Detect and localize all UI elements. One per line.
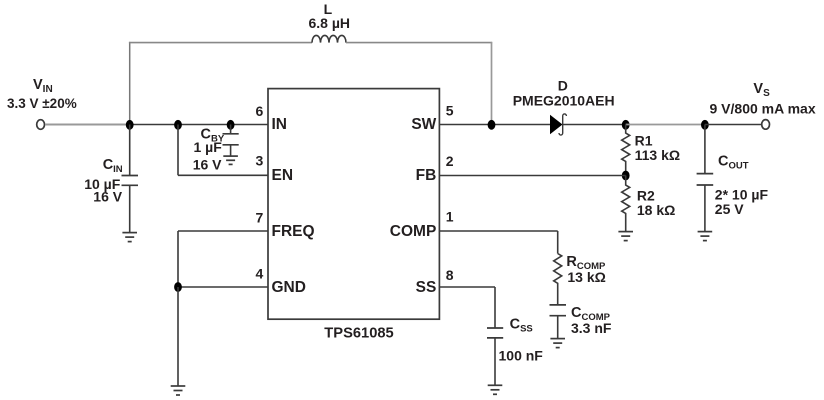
node VS output terminal: [762, 120, 770, 130]
svg-text:GND: GND: [272, 279, 306, 296]
svg-text:FREQ: FREQ: [272, 223, 315, 240]
svg-text:FB: FB: [416, 167, 437, 184]
wire COMP from pin 1: [439, 230, 557, 232]
junction GND node: [174, 282, 182, 292]
svg-text:3: 3: [256, 153, 264, 169]
op-amp U1 TPS61085 IC body: [268, 89, 439, 320]
capacitor CSS plates: [487, 327, 503, 329]
svg-text:1 µF: 1 µF: [194, 139, 223, 155]
svg-text:COMP: COMP: [390, 223, 437, 240]
wire FREQ/GND riser: [177, 231, 179, 287]
capacitor CBY plates: [223, 133, 239, 135]
svg-text:1: 1: [446, 209, 454, 225]
node VIN input terminal: [37, 120, 45, 130]
svg-text:25 V: 25 V: [715, 201, 744, 217]
wire VIN lead: [45, 124, 128, 126]
capacitor COUT lead bottom: [704, 185, 706, 232]
svg-text:PMEG2010AEH: PMEG2010AEH: [513, 93, 615, 109]
ground under R2: [618, 232, 633, 241]
wire SW to diode: [439, 124, 550, 126]
wire GND down to ground: [177, 287, 179, 386]
wire output lead: [705, 124, 761, 126]
svg-text:SW: SW: [411, 116, 436, 133]
resistor R2: [622, 176, 630, 232]
junction R1/R2/FB: [622, 171, 630, 181]
capacitor CIN lead top: [129, 125, 131, 176]
svg-text:CSS: CSS: [510, 317, 533, 335]
wire FB to divider: [439, 175, 625, 177]
svg-text:6: 6: [256, 103, 264, 119]
svg-text:EN: EN: [272, 167, 294, 184]
junction bus/EN riser: [174, 120, 182, 130]
diode D PMEG2010AEH triangle: [550, 115, 563, 134]
junction SW/riser: [488, 120, 496, 130]
resistor R1: [622, 125, 630, 176]
ground under CCOMP: [550, 339, 565, 348]
wire input bus: [128, 124, 268, 126]
svg-text:SS: SS: [416, 279, 437, 296]
svg-text:9 V/800 mA max: 9 V/800 mA max: [710, 100, 816, 116]
svg-text:18 kΩ: 18 kΩ: [637, 202, 675, 218]
junction diode/R1: [622, 120, 630, 130]
wire FREQ from riser to pin 7: [178, 230, 268, 232]
wire SS riser down: [494, 287, 496, 328]
ground main (left): [171, 386, 186, 395]
svg-text:3.3 nF: 3.3 nF: [571, 320, 612, 336]
capacitor COUT plates: [697, 173, 714, 175]
svg-text:4: 4: [256, 266, 264, 282]
wire EN riser: [177, 125, 179, 176]
svg-text:7: 7: [256, 210, 264, 226]
ground under CIN: [122, 233, 137, 242]
svg-text:VIN: VIN: [33, 77, 53, 95]
ground under CBY: [223, 156, 238, 164]
resistor RCOMP: [554, 254, 562, 305]
svg-text:5: 5: [446, 103, 454, 119]
svg-text:TPS61085: TPS61085: [324, 326, 393, 342]
svg-text:16 V: 16 V: [193, 156, 222, 172]
junction COUT/output: [701, 120, 709, 130]
junction bus/riser: [126, 120, 134, 130]
svg-text:VS: VS: [753, 81, 770, 99]
junction bus/CBY: [227, 120, 235, 130]
wire riser from inductor down to SW (right): [491, 42, 493, 125]
wire riser to inductor (left): [129, 42, 131, 125]
wire COMP riser down: [557, 231, 559, 254]
wire GND to pin 4: [178, 286, 268, 288]
capacitor CBY lead bottom: [230, 145, 232, 156]
wire top left to inductor: [129, 42, 312, 44]
svg-text:16 V: 16 V: [93, 189, 122, 205]
capacitor CSS lead bottom: [494, 338, 496, 385]
svg-text:113 kΩ: 113 kΩ: [635, 147, 681, 163]
svg-text:8: 8: [446, 267, 454, 283]
ground under CSS: [488, 385, 503, 394]
svg-text:IN: IN: [272, 116, 288, 133]
svg-text:100 nF: 100 nF: [499, 348, 544, 364]
svg-text:13 kΩ: 13 kΩ: [567, 269, 605, 285]
diode D cathode bar (schottky): [559, 114, 566, 135]
capacitor COUT lead top: [704, 125, 706, 174]
capacitor CIN lead bottom: [129, 185, 131, 232]
svg-text:D: D: [558, 78, 568, 94]
svg-text:6.8 µH: 6.8 µH: [309, 15, 351, 31]
capacitor CCOMP plates: [550, 304, 567, 306]
wire diode to R1 node: [563, 124, 626, 126]
wire EN to pin 3: [178, 174, 268, 176]
svg-text:CIN: CIN: [103, 157, 123, 175]
wire SS from pin 8: [439, 286, 495, 288]
svg-text:2: 2: [446, 153, 454, 169]
svg-text:3.3 V ±20%: 3.3 V ±20%: [7, 96, 77, 111]
inductor L 6.8 µH: [312, 35, 346, 42]
wire R1 node to COUT node: [626, 124, 705, 126]
ground under COUT: [698, 232, 713, 241]
wire inductor to right corner: [346, 42, 492, 44]
capacitor CBY lead top: [230, 125, 232, 134]
svg-text:COUT: COUT: [718, 153, 749, 171]
capacitor CCOMP lead bottom: [557, 316, 559, 339]
capacitor CIN plates: [122, 175, 139, 177]
